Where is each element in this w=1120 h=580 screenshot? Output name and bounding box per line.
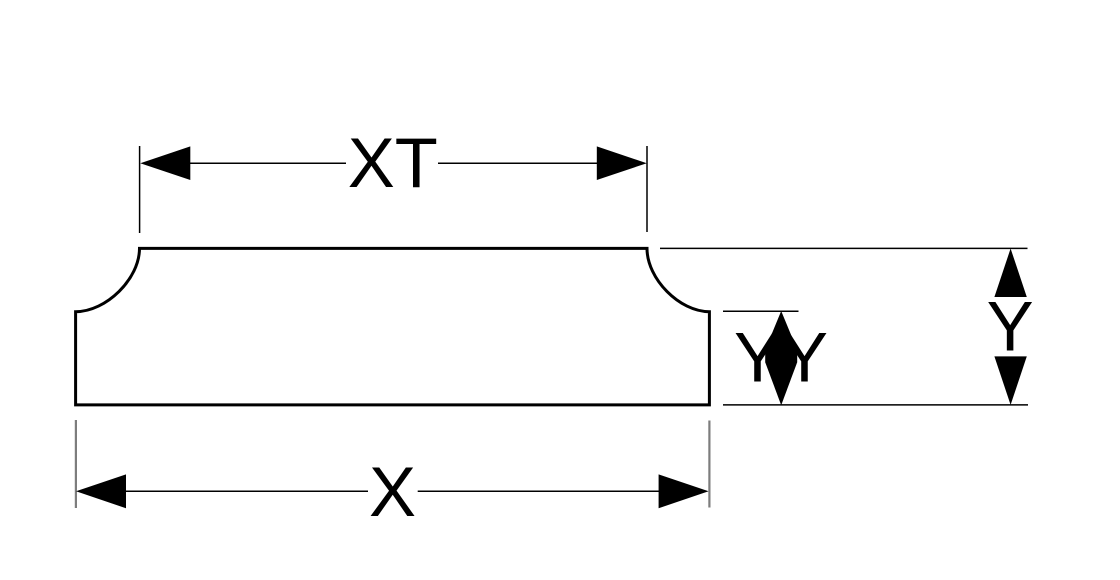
X extension line left (gray): [75, 420, 77, 508]
XT extension line right: [646, 146, 648, 232]
part outline (cross-section profile with concave top fillets): [76, 248, 710, 405]
X left arrowhead: [76, 474, 126, 508]
Y (middle) short extension line: [723, 310, 799, 312]
XT dimension line right segment: [438, 162, 599, 164]
XT extension line left: [139, 146, 141, 233]
X dimension line left segment: [124, 490, 368, 492]
svg-text:X: X: [369, 452, 416, 531]
XT dimension line left segment: [188, 162, 346, 164]
svg-text:XT: XT: [348, 123, 438, 202]
bottom edge extension line to the right: [723, 404, 1028, 406]
Y (right) down arrowhead: [994, 356, 1026, 405]
X extension line right (gray): [708, 421, 710, 508]
Y (right) up arrowhead: [994, 249, 1026, 298]
Y (middle) up arrowhead: [765, 311, 797, 351]
svg-text:Y: Y: [987, 286, 1034, 365]
top edge extension line to the right: [660, 247, 1028, 249]
XT left arrowhead: [140, 146, 190, 180]
X right arrowhead: [659, 474, 709, 508]
XT right arrowhead: [597, 146, 647, 180]
X dimension line right segment: [418, 490, 661, 492]
Y (middle) down arrowhead: [765, 351, 797, 406]
